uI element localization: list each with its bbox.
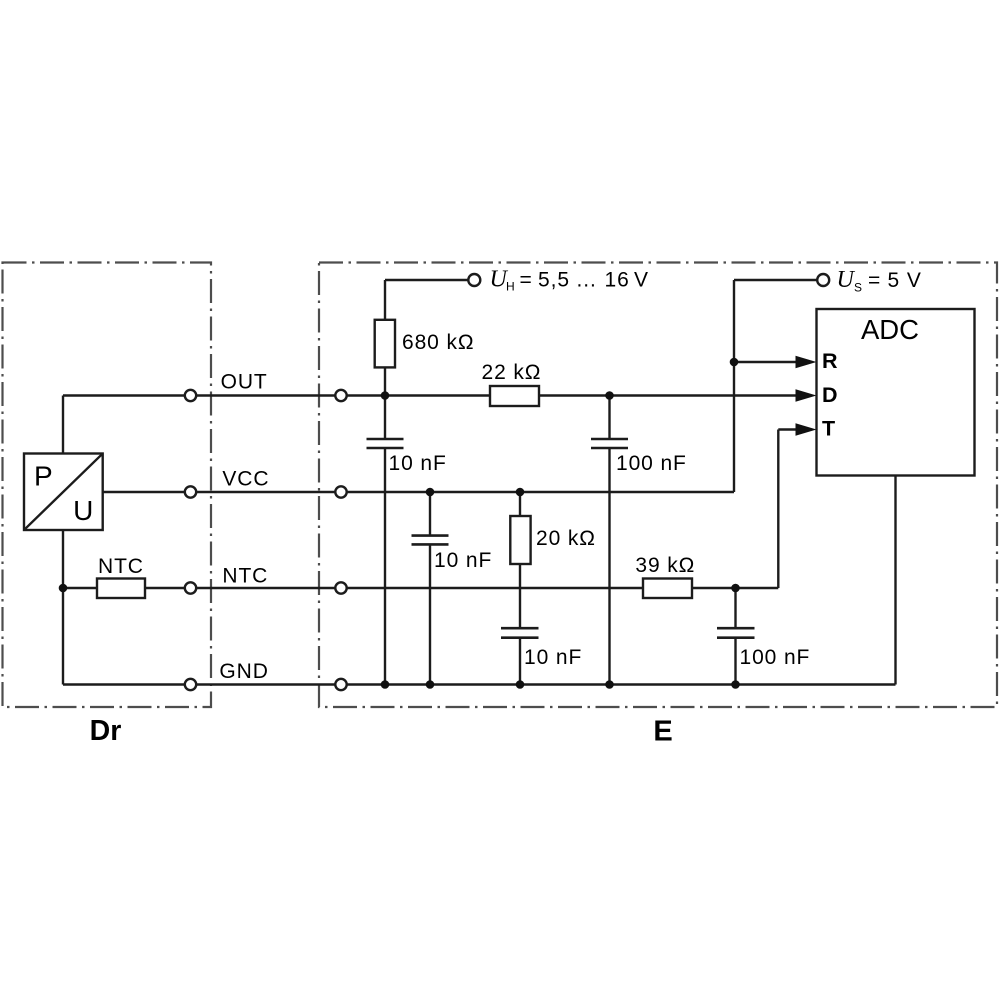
terminal OUT left xyxy=(185,390,196,401)
wire vertical x=430 VCC to cap xyxy=(429,492,431,536)
node GND x609.5 xyxy=(605,680,614,689)
arrowheads into ADC xyxy=(796,356,817,436)
frame E (dash-dot border) xyxy=(319,263,997,708)
svg-text:Dr: Dr xyxy=(90,715,122,747)
svg-text:U: U xyxy=(73,495,93,526)
svg-text:OUT: OUT xyxy=(221,371,268,394)
wire vertical x=430 cap to GND xyxy=(429,544,431,684)
wire NTC line horizontal xyxy=(63,587,778,589)
wire T input branch xyxy=(778,428,797,430)
svg-text:VCC: VCC xyxy=(222,468,269,491)
terminal VCC right xyxy=(335,486,346,497)
terminal OUT right xyxy=(335,390,346,401)
arrow R input xyxy=(796,356,817,368)
wire vertical x=609.5 OUT to cap xyxy=(608,396,610,440)
terminal NTC right xyxy=(335,582,346,593)
svg-text:16: 16 xyxy=(605,269,630,292)
terminal GND right xyxy=(335,679,346,690)
svg-text:5,5: 5,5 xyxy=(538,269,570,292)
svg-text:S: S xyxy=(854,281,862,295)
wire vertical x=385 680k to cap xyxy=(384,367,386,439)
svg-text:5 V: 5 V xyxy=(888,269,922,292)
terminal U_S xyxy=(817,274,829,286)
svg-text:680 kΩ: 680 kΩ xyxy=(402,331,474,354)
node OUT/680k xyxy=(381,391,390,400)
terminal NTC left xyxy=(185,582,196,593)
resistor NTC xyxy=(97,579,145,599)
frame Dr (dash-dot border) xyxy=(3,263,212,708)
svg-text:=: = xyxy=(868,269,880,292)
node NTC/100nF xyxy=(731,584,740,593)
svg-text:R: R xyxy=(822,349,838,373)
terminal circles xyxy=(185,274,829,690)
terminal U_H xyxy=(468,274,480,286)
node OUT/100nF xyxy=(605,391,614,400)
svg-text:GND: GND xyxy=(219,660,268,683)
junction dots xyxy=(59,358,740,689)
wire vertical x=385 U_H to 680k xyxy=(384,280,386,320)
wire VCC line horizontal xyxy=(103,491,734,493)
svg-text:H: H xyxy=(506,280,515,294)
svg-text:10 nF: 10 nF xyxy=(524,646,582,669)
svg-text:P: P xyxy=(34,461,53,492)
svg-text:100 nF: 100 nF xyxy=(616,452,687,475)
resistor R4 39 kOhm xyxy=(643,579,692,599)
svg-text:22 kΩ: 22 kΩ xyxy=(482,361,542,384)
svg-text:ADC: ADC xyxy=(861,314,919,345)
capacitor C5 100nF plates xyxy=(717,627,755,630)
wire OUT line horizontal xyxy=(63,394,797,396)
wire U_S supply stub xyxy=(734,279,817,281)
terminal VCC left xyxy=(185,486,196,497)
wire vertical x=735.5 NTC node to cap xyxy=(734,588,736,628)
wire left vertical from OUT to P/U box xyxy=(62,396,64,454)
wire ADC ground riser x=895.5 xyxy=(894,476,896,685)
wire vertical x=735.5 cap to GND xyxy=(734,638,736,685)
node GND x385 xyxy=(381,680,390,689)
capacitor C1 10nF plates xyxy=(367,439,755,638)
svg-text:100 nF: 100 nF xyxy=(740,646,811,669)
node GND x735.5 xyxy=(731,680,740,689)
svg-text:10 nF: 10 nF xyxy=(389,452,447,475)
wire left vertical from P/U box to GND xyxy=(62,530,64,685)
capacitor C3 10nF plates xyxy=(412,534,449,537)
svg-text:=: = xyxy=(520,269,532,292)
sensor block P/U xyxy=(24,454,103,531)
wire vertical x=385 cap to GND xyxy=(384,448,386,685)
node GND x430 xyxy=(426,680,435,689)
ADC block xyxy=(817,309,975,476)
svg-text:...: ... xyxy=(577,269,597,292)
arrow D input xyxy=(796,389,817,401)
wire vertical x=734 U_S to VCC xyxy=(733,280,735,492)
svg-text:E: E xyxy=(653,716,672,748)
svg-text:39 kΩ: 39 kΩ xyxy=(635,554,695,577)
wire vertical x=520 VCC to 20k xyxy=(519,492,521,516)
capacitor C2 100nF plates xyxy=(591,438,628,441)
wire U_H supply stub xyxy=(385,279,468,281)
supply label U_S xyxy=(837,267,922,295)
wire vertical x=520 cap to GND xyxy=(519,638,521,685)
svg-text:T: T xyxy=(822,417,835,441)
wire GND line horizontal xyxy=(63,683,896,685)
resistor R1 680 kOhm xyxy=(375,320,395,368)
node NTC left junction xyxy=(59,584,68,593)
svg-text:NTC: NTC xyxy=(98,555,144,578)
wire T riser vertical x=778.3 xyxy=(777,430,779,589)
capacitor C4 10nF plates xyxy=(501,627,539,630)
svg-text:20 kΩ: 20 kΩ xyxy=(536,527,596,550)
svg-text:D: D xyxy=(822,383,838,407)
svg-text:10 nF: 10 nF xyxy=(434,549,492,572)
supply label U_H xyxy=(490,267,649,294)
terminal GND left xyxy=(185,679,196,690)
node VCC/10nF xyxy=(426,488,435,497)
arrow T input xyxy=(796,423,817,435)
node R branch xyxy=(730,358,739,367)
svg-text:NTC: NTC xyxy=(222,565,268,588)
wire R input branch xyxy=(734,361,797,363)
node VCC/20k xyxy=(516,488,525,497)
wire vertical x=520 20k to cap xyxy=(519,564,521,628)
svg-text:U: U xyxy=(837,267,856,293)
resistor R3 20 kOhm xyxy=(510,516,530,564)
svg-text:V: V xyxy=(634,269,648,292)
wire vertical x=609.5 cap to GND xyxy=(608,448,610,685)
resistor R2 22 kOhm xyxy=(490,386,539,406)
node GND x520 xyxy=(516,680,525,689)
